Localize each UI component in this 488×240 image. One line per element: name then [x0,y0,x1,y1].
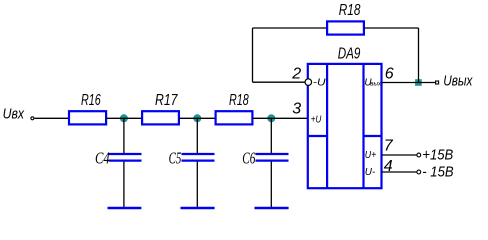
wire junction 3 to C6 [270,118,272,153]
pin 2 inversion circle [305,79,312,86]
wire R18 to op-amp pin 3 [253,117,308,119]
svg-text:R18: R18 [339,2,361,19]
svg-text:- 15В: - 15В [422,163,453,180]
svg-text:R17: R17 [155,92,178,109]
wire C5 to ground [196,162,198,207]
svg-text:R18: R18 [229,92,249,109]
feedback wire pin2 row [253,81,305,83]
junction node 1 [120,114,128,122]
resistor R18 feedback [327,21,364,34]
svg-text:+15В: +15В [422,146,453,163]
feedback wire right vertical [418,28,420,83]
ground C4 [108,207,142,209]
svg-text:-U: -U [313,78,326,89]
svg-text:Uвых: Uвых [443,73,473,90]
capacitor C6 [256,154,289,161]
svg-text:7: 7 [384,137,394,154]
svg-text:DA9: DA9 [338,46,361,63]
terminal +15V [417,153,421,157]
wire R17 to R18 [179,117,216,119]
wire pin 7 to +15V terminal [382,154,417,156]
feedback wire left vertical [252,28,254,82]
svg-text:6: 6 [385,66,394,83]
output terminal [436,81,439,84]
resistor R16 [69,111,106,124]
wire C4 to ground [123,162,125,207]
svg-text:C5: C5 [169,148,182,167]
wire C6 to ground [270,162,272,207]
resistor R17 [142,111,179,124]
svg-text:C4: C4 [95,148,110,167]
feedback wire top left [253,27,327,29]
op-amp U1 DA9 body [308,64,382,188]
svg-text:U+: U+ [365,150,377,161]
svg-text:U-: U- [365,167,376,178]
ground C5 [181,207,215,209]
terminal -15V [417,170,421,174]
svg-text:C6: C6 [242,148,255,167]
feedback wire top right [365,27,419,29]
svg-text:+U: +U [311,114,322,125]
capacitor C5 [182,154,215,161]
wire junction 1 to C4 [123,118,125,153]
svg-text:вых: вых [370,81,381,88]
svg-text:2: 2 [291,66,301,83]
wire pin 6 to output [382,82,436,84]
svg-text:Uвх: Uвх [3,106,25,123]
svg-text:3: 3 [292,100,301,117]
wire R16 to R17 [106,117,142,119]
wire pin 4 to -15V terminal [382,171,417,173]
input terminal [31,117,34,120]
junction node 3 [267,114,275,122]
svg-text:R16: R16 [81,92,101,109]
wire input to R16 [35,117,69,119]
resistor R18 series [216,111,253,124]
junction output (square) [415,79,422,86]
junction node 2 [193,114,201,122]
ground C6 [255,207,289,209]
wire junction 2 to C5 [196,118,198,153]
capacitor C4 [109,154,142,161]
